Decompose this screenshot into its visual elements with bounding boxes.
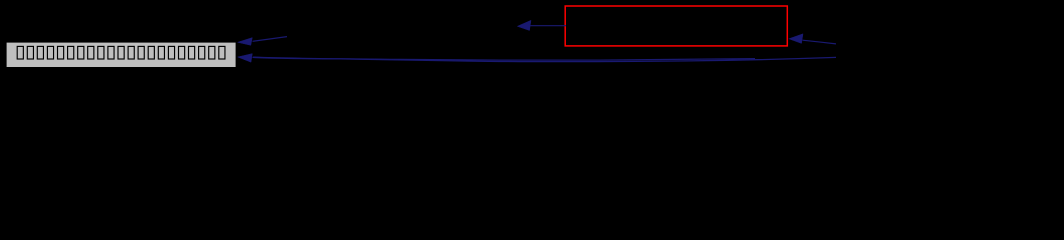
edge E1 arrowhead — [238, 38, 253, 46]
edge E4 wire: edge into red box lower right — [803, 40, 837, 44]
edge E3 wire: short edge leaving red box left side — [531, 25, 567, 27]
edge E4 arrowhead — [789, 34, 803, 44]
edge E3 arrowhead — [517, 20, 531, 30]
node N2: red truncated box (empty) — [565, 6, 787, 46]
edge E1 wire: short edge into grey box upper right — [253, 37, 288, 42]
node N1 label: 21 tofu (missing glyph) boxes — [17, 46, 225, 59]
edge E2 wire a: long sagging edge into grey box lower right — [253, 57, 837, 61]
edge E2 wire b: second overlapping strand — [253, 57, 755, 60]
node N1: grey current-function box — [6, 42, 236, 68]
edge E2 arrowhead — [238, 54, 253, 63]
